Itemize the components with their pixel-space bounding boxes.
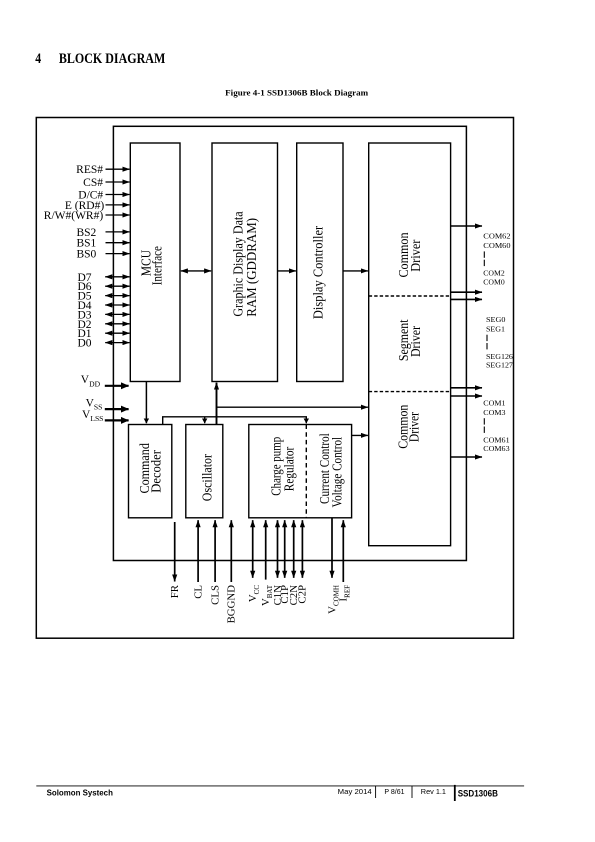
SEG pair arrow upper [451,387,482,389]
pin BGGND [230,520,232,582]
footer divider bold [454,785,456,801]
svg-text:COM61: COM61 [483,436,510,444]
svg-text:Decoder: Decoder [149,450,164,493]
svg-text:RAM (GDDRAM): RAM (GDDRAM) [244,218,259,317]
block Display Controller [297,143,343,382]
block Oscillator [186,425,223,518]
svg-text:Solomon Systech: Solomon Systech [47,789,113,798]
wire GDDRAM-DisplayController [278,270,296,272]
svg-text:4: 4 [35,51,41,67]
svg-text:SEG0: SEG0 [486,316,506,324]
stub into Oscillator top [204,417,206,423]
svg-text:C2P: C2P [297,585,309,604]
svg-text:R/W#(WR#): R/W#(WR#) [44,210,104,222]
svg-text:RES#: RES# [76,164,103,176]
svg-text:Graphic Display Data: Graphic Display Data [230,211,245,316]
svg-text:COM3: COM3 [483,409,506,417]
chip boundary [113,126,466,560]
dashed divider segment/common [369,391,451,393]
COM1-COM63 output arrow [451,456,482,458]
svg-text:CL: CL [192,585,204,599]
wire Oscillator to GDDRAM [216,383,218,425]
svg-text:Display Controller: Display Controller [311,225,326,319]
block MCU Interface [130,143,180,382]
svg-text:BGGND: BGGND [226,585,238,624]
svg-text:SEG126: SEG126 [486,353,513,361]
wire MCU-GDDRAM bidirectional [181,270,211,272]
footer divider [375,786,377,798]
pin C2P [301,520,303,578]
svg-text:BS0: BS0 [76,249,96,261]
svg-text:COM63: COM63 [483,445,510,453]
pin VCC [252,520,254,578]
outer figure frame [36,118,513,639]
pin C2N [293,520,295,578]
pin CL [197,520,199,582]
wire DisplayController-Driver [343,270,368,272]
svg-text:SEG1: SEG1 [486,325,505,333]
SEG pair arrow lower [451,395,482,397]
COM pair arrow lower [451,298,482,300]
pin FR [174,522,176,582]
COM62-COM0 output arrow [451,225,482,227]
dashed divider charge pump / control [305,425,307,518]
svg-text:Regulator: Regulator [281,446,296,491]
svg-text:BLOCK DIAGRAM: BLOCK DIAGRAM [59,51,165,67]
block Command Decoder [129,425,172,518]
svg-text:Figure 4-1 SSD1306B Block Diag: Figure 4-1 SSD1306B Block Diagram [225,87,369,97]
svg-text:May 2014: May 2014 [338,787,372,796]
wire Voltage Control to Common Driver [352,434,368,436]
block GDDRAM [212,143,278,382]
svg-text:Driver: Driver [408,239,423,272]
pin VBAT [265,520,267,579]
pin CLS [214,520,216,582]
svg-text:VCC: VCC [247,585,261,602]
svg-text:Driver: Driver [408,325,423,357]
wire Command Decoder to Oscillator / Charge pump [163,417,307,425]
pin VCOMH [331,519,333,578]
svg-text:SEG127: SEG127 [486,362,513,370]
svg-text:VDD: VDD [81,374,101,388]
svg-text:CS#: CS# [83,177,103,189]
svg-text:Rev 1.1: Rev 1.1 [421,787,446,796]
svg-text:COM2: COM2 [483,270,505,278]
wire MCU to Command Decoder [145,382,147,424]
svg-text:FR: FR [169,584,181,598]
footer rule [36,785,524,787]
dashed divider common/segment [369,295,451,297]
footer divider [411,786,413,798]
block Charge pump / control [249,425,352,518]
svg-text:CLS: CLS [209,585,221,605]
svg-text:COM1: COM1 [483,399,506,407]
svg-text:SSD1306B: SSD1306B [458,788,498,799]
pin C1P [284,520,286,578]
svg-text:COM62: COM62 [483,233,511,241]
svg-text:COM60: COM60 [483,242,511,250]
svg-text:Interface: Interface [149,246,164,285]
svg-text:Voltage Control: Voltage Control [330,437,345,508]
svg-text:D0: D0 [77,338,91,350]
wire clock to bottom Common Driver [217,406,368,408]
svg-text:Oscillator: Oscillator [200,454,215,502]
svg-text:P 8/61: P 8/61 [384,787,404,796]
pin IREF [342,520,344,582]
pin C1N [277,520,279,578]
svg-text:COM0: COM0 [483,278,505,286]
svg-text:Driver: Driver [407,412,422,442]
COM pair arrow upper [451,291,482,293]
block Driver (common/segment/common) [369,143,451,546]
